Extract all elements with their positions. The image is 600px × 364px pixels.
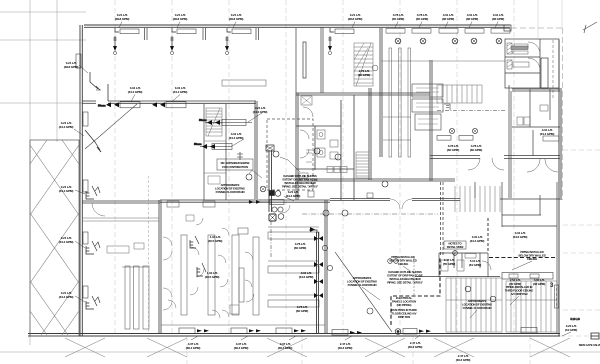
top wall drop 1 — [113, 28, 139, 55]
svg-text:(38.4 GPM): (38.4 GPM) — [234, 346, 249, 350]
svg-text:(38.4 GPM): (38.4 GPM) — [278, 346, 293, 350]
svg-text:50mm: 50mm — [199, 118, 207, 122]
kitchen equipment columns — [167, 201, 259, 315]
top floor drain circles — [395, 38, 502, 44]
top wall drop 2 — [170, 28, 196, 55]
suite labels — [443, 128, 554, 286]
bottom labels below wall — [186, 324, 577, 362]
svg-text:(34.4 GPM): (34.4 GPM) — [59, 189, 74, 193]
svg-text:(38.8 GPM): (38.8 GPM) — [348, 17, 363, 21]
svg-text:(48 GPM): (48 GPM) — [533, 282, 545, 286]
svg-text:PIPING. SEE DETAIL "X/P201": PIPING. SEE DETAIL "X/P201" — [387, 281, 424, 285]
unit-fan dashed outline (center) — [267, 119, 313, 190]
interior wall y=101 west block — [82, 84, 256, 103]
svg-text:(34.4 GPM): (34.4 GPM) — [59, 125, 74, 129]
svg-text:(34.4 GPM): (34.4 GPM) — [173, 90, 188, 94]
svg-text:FUNNEL FLOOR DRAIN: FUNNEL FLOOR DRAIN — [463, 306, 492, 310]
svg-text:(34.4 GPM): (34.4 GPM) — [128, 90, 143, 94]
top wall drop 3 — [225, 28, 251, 55]
svg-text:FUNNEL FLOOR DRAIN: FUNNEL FLOOR DRAIN — [348, 283, 377, 287]
valves on riser P1 — [314, 236, 323, 298]
wall tag assembly 2 (y=105) — [152, 102, 186, 108]
stairwell SW1 — [204, 104, 226, 200]
gate valve symbol SE — [591, 333, 599, 339]
bottom tag row — [179, 328, 537, 336]
heavy dashed drip-pan outline — [391, 218, 557, 325]
svg-text:(36.3 GPM): (36.3 GPM) — [338, 346, 353, 350]
expansion X marks below south wall — [65, 338, 570, 357]
svg-text:CEILING: CEILING — [527, 257, 537, 261]
svg-text:(34.6 GPM): (34.6 GPM) — [513, 235, 528, 239]
lower-right room walls — [502, 182, 557, 333]
svg-text:(60 GPM): (60 GPM) — [470, 148, 482, 152]
svg-text:DRIP PAN: DRIP PAN — [398, 315, 410, 319]
new gate valve label — [579, 343, 600, 347]
kitchen valve cluster glyphs — [190, 152, 243, 276]
bottom tag arrows — [197, 329, 431, 334]
leader diagonal NW — [85, 104, 137, 149]
right notes — [347, 250, 546, 310]
column stubs below north wall — [145, 28, 259, 40]
west wall — [80, 25, 82, 336]
labels above wall y=101 — [128, 86, 188, 94]
leaders for wall labels — [131, 95, 180, 102]
note approx location box (center) — [215, 183, 245, 194]
svg-text:(38 GPM): (38 GPM) — [492, 17, 504, 21]
svg-text:(38.8 GPM): (38.8 GPM) — [173, 17, 188, 21]
svg-text:(38.4 GPM): (38.4 GPM) — [186, 346, 201, 350]
svg-text:(38.8 GPM): (38.8 GPM) — [229, 17, 244, 21]
center labels — [229, 69, 370, 140]
long leader diagonal to funnel drain — [335, 252, 392, 332]
svg-text:FUNNEL FLOOR DRAIN: FUNNEL FLOOR DRAIN — [216, 190, 245, 194]
svg-text:(38 GPM): (38 GPM) — [442, 17, 454, 21]
corridor wall y=202 — [82, 200, 330, 203]
bottom-center suite fixtures — [414, 254, 491, 296]
wall x=381 — [380, 28, 382, 157]
note dashed outline (center) — [282, 174, 319, 189]
riser pipe P1 (kitchen east) — [317, 232, 319, 333]
serving bars — [268, 227, 319, 307]
top-center shaft walls — [296, 27, 323, 93]
svg-text:(60 GPM): (60 GPM) — [296, 309, 308, 313]
hatch area diagonals — [30, 140, 79, 335]
svg-text:50mm: 50mm — [194, 142, 202, 146]
svg-text:CEILING: CEILING — [398, 262, 408, 266]
P1 top elbow — [309, 227, 317, 233]
east wall — [559, 40, 561, 336]
svg-text:(34.6 GPM): (34.6 GPM) — [299, 275, 314, 279]
svg-text:(81 GPM): (81 GPM) — [469, 263, 481, 267]
svg-text:(55 GPM): (55 GPM) — [443, 262, 455, 266]
notes to detail box — [444, 241, 466, 255]
svg-text:5.10 L/S: 5.10 L/S — [570, 317, 580, 321]
svg-text:(30.5 GPM): (30.5 GPM) — [208, 239, 223, 243]
svg-text:(36.3 GPM): (36.3 GPM) — [408, 345, 423, 349]
west wall drop glyphs — [76, 54, 101, 309]
NE corner survey mark — [583, 22, 597, 33]
north wall — [84, 25, 511, 31]
svg-text:(60 GPM): (60 GPM) — [447, 148, 459, 152]
west label leaders — [74, 65, 88, 302]
grid lines — [0, 0, 86, 345]
right-bottom notes — [387, 255, 424, 319]
svg-text:PIPING. SEE DETAIL "X/P201": PIPING. SEE DETAIL "X/P201" — [282, 185, 319, 189]
floor drain TD-35 circle — [395, 329, 401, 335]
top-right block — [505, 39, 559, 88]
svg-text:(30.5 GPM): (30.5 GPM) — [205, 275, 220, 279]
extra grid verticals NE — [538, 0, 562, 39]
rack stripes bottom-right B — [506, 281, 557, 332]
west corridor counter — [82, 176, 159, 333]
serving area wall y=318 — [161, 324, 325, 326]
rack stripes bottom-right A — [446, 278, 502, 332]
svg-text:(34.4 GPM): (34.4 GPM) — [59, 295, 74, 299]
hatch area box (left) — [30, 140, 79, 336]
svg-text:(34.4 GPM): (34.4 GPM) — [59, 240, 74, 244]
mid-right fixtures — [468, 105, 558, 172]
svg-text:(34.4 GPM): (34.4 GPM) — [253, 110, 268, 114]
svg-text:(NO PIPING): (NO PIPING) — [397, 303, 412, 307]
right mid tag — [543, 136, 559, 141]
kitchen door swing arcs — [163, 205, 290, 318]
south wall — [28, 334, 560, 337]
rack stripes right-middle — [455, 186, 500, 212]
svg-text:NEW GATE VALVE: NEW GATE VALVE — [579, 343, 600, 347]
svg-text:(34.4 GPM): (34.4 GPM) — [229, 136, 244, 140]
pipe line y=61 — [381, 60, 505, 62]
west racks bottom — [122, 266, 149, 329]
kitchen east wall x=326 — [325, 200, 327, 333]
mid-right dock stripes — [437, 85, 482, 103]
riser bars x=375-408 — [383, 48, 411, 157]
svg-text:(60 GPM): (60 GPM) — [416, 17, 428, 21]
stairwell SW3 center — [356, 152, 369, 178]
bottom-center suite walls — [415, 253, 500, 277]
svg-text:(40 GPM): (40 GPM) — [509, 282, 521, 286]
svg-text:50mm: 50mm — [98, 104, 106, 108]
svg-text:(38 GPM): (38 GPM) — [466, 17, 478, 21]
wall x=430 — [430, 60, 432, 181]
pipe run dash-dot y=214 — [302, 213, 438, 215]
top labels — [115, 13, 504, 21]
pipe fitting box on riser P2 — [266, 145, 274, 151]
svg-text:(60 GPM): (60 GPM) — [392, 17, 404, 21]
cluster label — [286, 190, 301, 198]
center rooms block walls — [296, 88, 455, 200]
svg-text:(60 GPM): (60 GPM) — [294, 246, 306, 250]
svg-text:FOR CONTRIBUTION: FOR CONTRIBUTION — [222, 165, 248, 169]
long counter rect top-center — [222, 80, 266, 86]
mid-right drains — [437, 104, 478, 140]
column bubble 3 — [550, 283, 554, 289]
svg-text:(60 GPM): (60 GPM) — [358, 73, 370, 77]
riser pipe P2 (center) — [269, 150, 272, 212]
sidewalk line below south wall — [0, 351, 600, 353]
tag assembly B (y=146) — [194, 142, 232, 150]
top tags TD-40..44 — [386, 29, 510, 34]
kitchen labels — [205, 235, 314, 313]
mid-right pipe dash-dot — [437, 110, 505, 112]
misc leaders — [232, 113, 580, 336]
mid-right walls — [430, 85, 560, 199]
svg-text:(34.4 GPM): (34.4 GPM) — [540, 132, 555, 136]
svg-text:(38.8 GPM): (38.8 GPM) — [115, 17, 130, 21]
tag assembly A (y=122) — [199, 118, 252, 126]
svg-text:(36.3 GPM): (36.3 GPM) — [456, 358, 471, 362]
interior wall x=256 — [255, 101, 257, 199]
kitchen west wall x=160 — [159, 200, 161, 333]
NE canopy dashed outline — [511, 28, 563, 200]
valve cluster center — [248, 186, 294, 258]
top-right block fixtures — [507, 40, 553, 100]
note RE expanded box — [217, 159, 253, 170]
west wall labels — [59, 61, 79, 299]
bathroom fixtures center — [299, 96, 347, 178]
svg-text:(34 GPM): (34 GPM) — [565, 328, 577, 332]
east wall vertical tag — [555, 285, 559, 308]
corridor wall y=199 center — [308, 191, 460, 209]
svg-text:(34.4 GPM): (34.4 GPM) — [470, 239, 485, 243]
stairwell SW2 top-center — [354, 43, 378, 86]
bottom label leaders — [191, 335, 420, 340]
svg-text:(34.4 GPM): (34.4 GPM) — [286, 194, 301, 198]
circled keynotes — [246, 148, 496, 302]
drip pipe dashed riser x=442 — [441, 182, 444, 257]
top wall drop 4 — [328, 28, 354, 55]
svg-text:DETAIL 5/M02: DETAIL 5/M02 — [447, 245, 464, 249]
wall tag assembly 1 (y=105) — [98, 102, 140, 108]
dock blocks x=412-444 — [412, 84, 443, 130]
top label leaders — [119, 22, 498, 29]
svg-text:A/V DRIP PAN: A/V DRIP PAN — [511, 292, 528, 296]
